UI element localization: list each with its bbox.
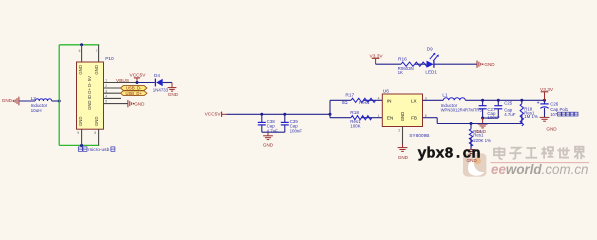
svg-text:FB: FB: [411, 115, 417, 120]
wire green net bottom: [59, 144, 99, 146]
svg-text:1M 1%: 1M 1%: [524, 114, 538, 119]
net label VBUS: [116, 78, 129, 84]
svg-text:7: 7: [96, 49, 98, 53]
ground (C26): [540, 117, 558, 131]
svg-text:220K 1%: 220K 1%: [473, 138, 491, 143]
svg-text:C26: C26: [550, 101, 559, 106]
pin 3 D+: [104, 89, 121, 93]
svg-text:2: 2: [398, 129, 400, 133]
svg-text:GND: GND: [94, 117, 99, 127]
wire R16 to D9: [415, 63, 427, 65]
pin 2 wire to ground (U6): [402, 127, 404, 148]
svg-text:LX: LX: [411, 98, 417, 103]
watermark chinese characters: [494, 147, 585, 160]
junction C39: [283, 113, 286, 116]
connector P10 body: [77, 62, 104, 129]
wire LX to L1: [423, 99, 444, 101]
port USB_D-: [121, 86, 147, 91]
junction C27: [481, 99, 484, 102]
wire V3.3V to R16: [376, 63, 401, 65]
junction C26/V3.3V: [543, 99, 546, 102]
wire D9 to ground: [434, 63, 477, 65]
svg-text:1: 1: [105, 79, 107, 83]
watermark ybx8.cn: [418, 145, 481, 162]
svg-text:C25: C25: [504, 101, 513, 106]
junction FB/R14: [470, 122, 473, 125]
svg-text:D4: D4: [154, 73, 160, 78]
svg-text:L1: L1: [442, 93, 448, 98]
svg-text:GND ID D+ D- 5V: GND ID D+ D- 5V: [87, 76, 92, 110]
svg-text:D9: D9: [427, 47, 433, 52]
resistor R18 100K: [350, 110, 372, 129]
zener diode D4 1N4733: [153, 73, 169, 92]
svg-text:micro-usb: micro-usb: [88, 147, 109, 153]
ground (U6): [398, 148, 409, 160]
P10 designator: [105, 56, 114, 62]
svg-text:GND: GND: [2, 98, 13, 103]
wire VBUS to D4: [137, 82, 155, 84]
watermark eeworld logo: [463, 153, 486, 176]
svg-text:USB_D+: USB_D+: [125, 91, 142, 96]
svg-text:8: 8: [94, 131, 96, 135]
wire FB net: [423, 115, 522, 124]
junction rail / R17 / R18: [329, 113, 332, 116]
svg-text:GND: GND: [168, 92, 179, 97]
wire rail vertical split: [329, 100, 331, 117]
capacitor C27 100nF: [479, 100, 501, 120]
svg-text:EN: EN: [387, 115, 393, 120]
inductor L2 10uH: [31, 96, 52, 113]
power port V3.3V (output): [540, 87, 554, 101]
svg-text:eeworld.com.cn: eeworld.com.cn: [491, 162, 589, 177]
junction R18 1M: [520, 99, 523, 102]
svg-text:1N4733: 1N4733: [153, 87, 169, 92]
svg-text:+: +: [537, 100, 540, 106]
svg-text:ybx8.cn: ybx8.cn: [418, 145, 481, 162]
svg-text:6: 6: [79, 49, 81, 53]
watermark divider line: [491, 162, 590, 164]
wire to R18 / EN: [330, 117, 382, 119]
svg-text:SY8009B: SY8009B: [409, 133, 429, 139]
junction VBUS/VCC5V: [136, 81, 139, 84]
svg-text:GND: GND: [400, 112, 405, 122]
svg-text:WPN3012R4R7MTR5: WPN3012R4R7MTR5: [441, 107, 483, 112]
wire VCC5V rail: [227, 113, 331, 115]
svg-text:GND: GND: [546, 127, 557, 132]
svg-text:Res1: Res1: [473, 133, 484, 138]
junction C25: [497, 99, 500, 102]
wire to R17 / IN: [330, 99, 382, 101]
wire L2 to green net: [52, 100, 60, 102]
svg-text:0Ω: 0Ω: [342, 100, 348, 105]
svg-text:U6: U6: [383, 88, 389, 94]
GND corner labels of P10: [78, 65, 99, 126]
capacitor C39 100nF: [281, 114, 303, 133]
svg-text:1K: 1K: [398, 70, 403, 75]
port USB_D+: [121, 91, 147, 96]
resistor R18 1M 1%: [520, 100, 538, 126]
pin 5 GND: [104, 100, 128, 104]
svg-text:9: 9: [77, 131, 79, 135]
svg-text:GND: GND: [398, 155, 409, 160]
svg-text:R16: R16: [398, 57, 407, 63]
svg-text:10uH: 10uH: [31, 108, 42, 113]
svg-text:GND: GND: [78, 117, 83, 127]
pin 4 ID: [104, 95, 122, 99]
ground (C38/C39): [263, 132, 274, 147]
label micro-usb socket: [78, 147, 115, 153]
svg-text:R18: R18: [350, 110, 359, 116]
power port VCC5V (rail): [205, 112, 227, 118]
svg-text:4.7uF: 4.7uF: [504, 112, 516, 117]
junction C27 bottom: [481, 117, 484, 120]
resistor R16 1K: [398, 57, 429, 75]
svg-text:IN: IN: [387, 98, 392, 103]
U6 pin numbers: [378, 96, 427, 132]
svg-text:Res1: Res1: [359, 100, 370, 105]
junction bottom shell pin: [80, 144, 83, 147]
svg-text:GND: GND: [94, 65, 99, 75]
wire C38/C39 bottoms: [262, 131, 285, 133]
svg-text:GND: GND: [484, 62, 495, 67]
ground (C27): [476, 118, 488, 134]
pin 7 shell top-right: [96, 45, 99, 62]
ground (R14): [466, 150, 477, 163]
svg-text:4: 4: [378, 96, 380, 100]
ground (P10 pin5): [128, 100, 145, 107]
capacitor C26 Cap Pol1: [537, 100, 569, 117]
svg-text:4: 4: [105, 95, 107, 99]
svg-text:R17: R17: [345, 92, 354, 98]
svg-text:5: 5: [105, 100, 107, 104]
capacitor C38 4.7uF: [258, 114, 278, 133]
P10 pin name column 5V D- D+ ID GND: [87, 76, 92, 110]
svg-text:1: 1: [378, 114, 380, 118]
op IC U6 SY8009B body: [382, 88, 429, 139]
pin 8 shell bottom-right: [94, 129, 98, 145]
svg-text:3: 3: [105, 89, 107, 93]
wire C27/C25 bottoms: [483, 117, 499, 119]
svg-text:GND: GND: [78, 65, 83, 75]
svg-text:2: 2: [105, 84, 107, 88]
wire GND to L2: [19, 100, 35, 102]
svg-text:100nF: 100nF: [290, 128, 303, 133]
pin 6 shell top-left: [79, 45, 82, 62]
svg-text:L2: L2: [31, 96, 37, 102]
svg-text:LED1: LED1: [425, 69, 437, 74]
svg-text:GND: GND: [134, 101, 145, 106]
svg-text:P10: P10: [105, 56, 114, 62]
pin 9 shell bottom-left: [77, 129, 81, 145]
svg-text:VBUS: VBUS: [116, 78, 129, 84]
C26 value 107 tantalum: [550, 112, 578, 117]
ground GND (left of L2): [2, 97, 19, 106]
wire L1 to output node: [465, 99, 544, 101]
power port VCC5V (on VBUS): [130, 72, 147, 82]
svg-text:107: 107: [550, 112, 558, 117]
resistor R17 0R: [342, 92, 376, 105]
svg-text:100K: 100K: [350, 123, 360, 128]
watermark eeworld.com.cn: [491, 162, 589, 177]
wire D4 to ground: [163, 82, 172, 84]
junction C38: [260, 113, 263, 116]
LED D9 LED1: [425, 47, 438, 75]
power port V3.3V (LED branch): [370, 53, 384, 64]
junction top shell pin: [80, 43, 83, 46]
pin 2 D-: [104, 84, 121, 88]
junction L2/green net: [58, 100, 61, 103]
ground (LED): [477, 61, 495, 68]
inductor L1 WPN3012H4R7MT: [441, 93, 483, 113]
wire green net top: [59, 44, 99, 46]
svg-text:GND: GND: [263, 142, 274, 147]
resistor R14 220K 1%: [469, 124, 491, 150]
svg-text:VCC5V: VCC5V: [130, 72, 147, 78]
ground (D4): [168, 83, 179, 98]
svg-text:3: 3: [425, 96, 427, 100]
wire green net left vertical: [58, 45, 60, 146]
pin 1 VBUS: [104, 79, 138, 83]
svg-text:VCC5V: VCC5V: [205, 112, 222, 118]
capacitor C25 4.7uF: [494, 100, 515, 118]
